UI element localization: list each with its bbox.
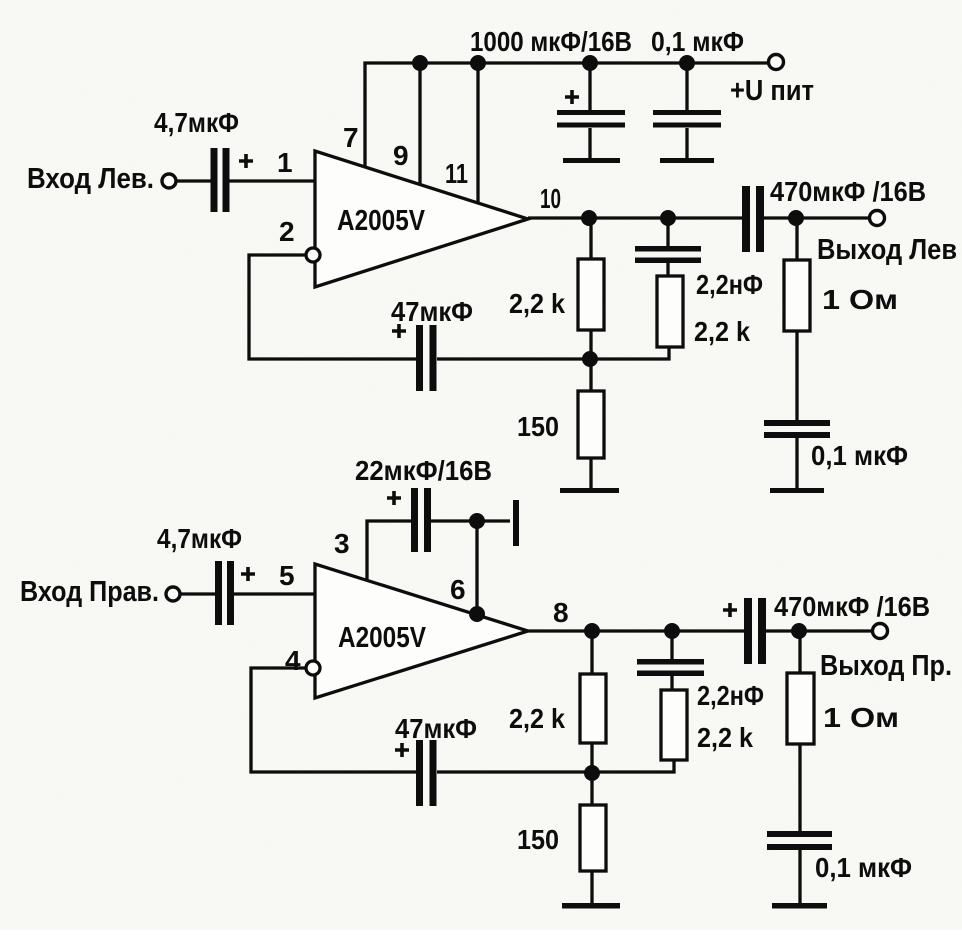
resistor 2,2k (right, under 2,2нФ) xyxy=(661,690,687,760)
ground (R150 left) xyxy=(560,488,619,493)
svg-text:2: 2 xyxy=(279,216,295,247)
junction: rail pin9 xyxy=(412,55,428,71)
svg-text:1: 1 xyxy=(277,147,293,178)
wire: cap to output terminal xyxy=(764,216,870,219)
pin 4 inverting input circle xyxy=(306,661,320,675)
resistor 2,2k (right, to feedback node) xyxy=(590,631,593,674)
svg-text:5: 5 xyxy=(279,560,295,591)
capacitor 4,7мкФ (right input) xyxy=(215,561,222,625)
svg-text:1000 мкФ/16В: 1000 мкФ/16В xyxy=(470,26,632,57)
resistor 1 Ом (left output) xyxy=(795,218,798,260)
wire: C to pin 5 xyxy=(234,592,315,595)
svg-text:2,2 k: 2,2 k xyxy=(509,703,565,734)
svg-text:6: 6 xyxy=(450,574,466,605)
junction: right output node xyxy=(791,623,807,639)
svg-text:2,2нФ: 2,2нФ xyxy=(697,680,764,711)
svg-text:150: 150 xyxy=(517,411,559,442)
svg-text:470мкФ /16В: 470мкФ /16В xyxy=(774,591,930,622)
svg-text:2,2 k: 2,2 k xyxy=(697,722,753,753)
capacitor 2,2нФ (left) xyxy=(666,218,669,248)
pin 2 inverting input circle xyxy=(306,248,320,262)
svg-text:1 Ом: 1 Ом xyxy=(822,284,898,315)
junction: output / 2,2нФ (right) xyxy=(664,623,680,639)
svg-text:0,1 мкФ: 0,1 мкФ xyxy=(811,440,908,471)
wire: 22мкФ to junction xyxy=(431,519,510,522)
wire: pin 11 xyxy=(476,63,479,202)
svg-text:2,2нФ: 2,2нФ xyxy=(696,269,763,300)
svg-text:3: 3 xyxy=(334,528,350,559)
op-amp U1 A2005V (left) xyxy=(315,151,528,287)
wire: cap to right output terminal xyxy=(766,629,873,632)
capacitor 470мкФ /16В (left output, series) xyxy=(742,186,750,252)
op-amp U2 A2005V (right) xyxy=(315,564,528,698)
capacitor 2,2нФ (right) xyxy=(670,631,673,661)
junction: output node after cap xyxy=(788,210,804,226)
svg-text:2,2 k: 2,2 k xyxy=(694,316,750,347)
capacitor 4,7мкФ (left input) xyxy=(211,148,218,212)
wire: cap 47мкФ to feedback node xyxy=(437,770,592,773)
wire: pin 9 xyxy=(418,63,421,184)
junction: output / 2,2нФ xyxy=(660,210,676,226)
capacitor 470мкФ /16В (right output, series) xyxy=(744,598,752,664)
capacitor 0,1 мкФ (supply) xyxy=(685,63,688,112)
svg-text:0,1 мкФ: 0,1 мкФ xyxy=(815,852,912,883)
svg-text:Вход Лев.: Вход Лев. xyxy=(27,163,154,195)
svg-text:1 Ом: 1 Ом xyxy=(823,702,899,733)
wire: cap 47мкФ to feedback node xyxy=(437,357,590,360)
terminal: right input xyxy=(166,587,180,601)
junction: rail 0,1мкФ xyxy=(679,55,695,71)
wire: feedback node to R 2,2k (shunt) xyxy=(592,760,674,772)
wire: input terminal to C 4,7мкФ xyxy=(180,592,217,595)
svg-text:150: 150 xyxy=(517,824,559,855)
capacitor 0,1 мкФ (right output zobel) xyxy=(767,831,832,837)
svg-text:4,7мкФ: 4,7мкФ xyxy=(154,107,239,138)
resistor 1 Ом (right output) xyxy=(798,631,801,673)
junction: feedback node (right) xyxy=(584,765,600,781)
junction: pin 6 node top xyxy=(469,513,485,529)
svg-text:22мкФ/16В: 22мкФ/16В xyxy=(355,455,492,486)
svg-text:+U пит: +U пит xyxy=(730,75,814,107)
terminal: Выход Пр. xyxy=(873,624,888,639)
ground (R150 right) xyxy=(562,903,620,909)
svg-text:4: 4 xyxy=(285,645,301,676)
junction: rail 1000мкФ xyxy=(582,55,598,71)
wire: pin 7 to supply rail xyxy=(365,63,768,167)
resistor 2,2k (left, under 2,2нФ) xyxy=(657,276,683,347)
svg-text:Вход Прав.: Вход Прав. xyxy=(20,576,159,608)
capacitor 47мкФ (left feedback) xyxy=(416,325,423,391)
svg-text:470мкФ /16В: 470мкФ /16В xyxy=(770,176,926,207)
wire: pin 3 up and to 22мкФ xyxy=(367,521,413,580)
ground (1000мкФ) xyxy=(563,158,620,163)
wire: input terminal to C 4,7мкФ xyxy=(176,179,213,182)
svg-text:9: 9 xyxy=(393,140,409,171)
capacitor 22мкФ/16В xyxy=(411,488,418,552)
ground (0,1мкФ supply) xyxy=(660,158,714,163)
wire: pin 4 to feedback line xyxy=(251,668,418,772)
svg-text:7: 7 xyxy=(343,122,359,153)
svg-text:11: 11 xyxy=(445,158,468,189)
svg-text:A2005V: A2005V xyxy=(337,205,426,237)
svg-text:Выход Пр.: Выход Пр. xyxy=(820,650,952,682)
svg-text:0,1 мкФ: 0,1 мкФ xyxy=(651,26,744,57)
junction: output / R2,2k (right) xyxy=(584,623,600,639)
wire: junction down to pin 6 xyxy=(475,521,478,614)
wire: pin 2 to feedback line xyxy=(249,255,419,359)
svg-text:Выход Лев: Выход Лев xyxy=(817,234,957,266)
terminal: Выход Лев xyxy=(870,211,885,226)
terminal: left input xyxy=(162,174,176,188)
capacitor 1000 мкФ/16В (supply) xyxy=(588,63,591,112)
svg-text:47мкФ: 47мкФ xyxy=(391,296,473,327)
svg-text:A2005V: A2005V xyxy=(338,622,427,654)
svg-text:8: 8 xyxy=(553,597,569,628)
resistor 150 (left) xyxy=(589,359,592,391)
svg-text:10: 10 xyxy=(540,183,561,214)
junction: pin 6 on op-amp edge xyxy=(469,606,485,622)
junction: output / R2,2k xyxy=(581,210,597,226)
svg-text:47мкФ: 47мкФ xyxy=(395,713,477,744)
junction: rail pin11 xyxy=(470,55,486,71)
wire: C 4,7мкФ to pin 1 xyxy=(229,179,315,182)
capacitor 0,1 мкФ (left output zobel) xyxy=(764,420,830,426)
junction: feedback node xyxy=(582,351,598,367)
resistor 2,2k (left, to feedback node) xyxy=(589,218,592,259)
svg-text:4,7мкФ: 4,7мкФ xyxy=(157,523,242,554)
wire: feedback node to R 2,2k (shunt) xyxy=(590,348,669,359)
svg-text:2,2 k: 2,2 k xyxy=(509,288,565,319)
bar terminal at 22мкФ node xyxy=(513,500,519,546)
terminal: +U пит xyxy=(769,55,784,70)
wire: output pin 8 xyxy=(528,629,746,632)
resistor 150 (right) xyxy=(590,772,593,805)
wire: output pin 10 xyxy=(528,216,745,219)
ground (left output) xyxy=(770,488,824,493)
ground (right output) xyxy=(772,903,827,909)
capacitor 47мкФ (right feedback) xyxy=(416,740,423,806)
